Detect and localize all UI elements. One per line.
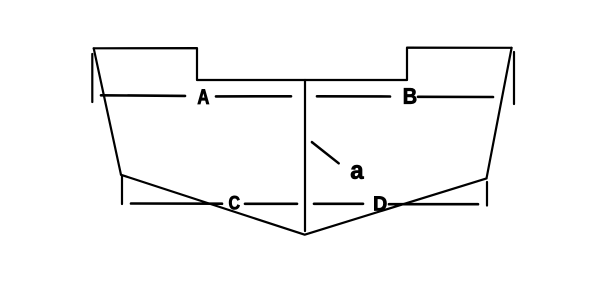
measurement line A right segment xyxy=(216,95,291,98)
right chine tick xyxy=(486,182,488,206)
measurement line A left segment xyxy=(101,94,185,97)
left extension tick xyxy=(91,54,93,102)
hull left side xyxy=(94,48,121,175)
label a xyxy=(351,165,364,179)
measurement line B left segment xyxy=(317,95,390,98)
hull bottom V xyxy=(121,175,487,235)
measurement line B right segment xyxy=(418,96,493,99)
label D xyxy=(374,196,386,210)
leader line a xyxy=(312,142,339,163)
hull right side xyxy=(487,48,512,179)
label C xyxy=(229,196,239,210)
left chine tick xyxy=(121,176,123,204)
measurement line D right segment xyxy=(389,203,478,206)
right extension tick xyxy=(513,52,515,104)
label B xyxy=(404,88,416,103)
centerline vertical xyxy=(304,80,306,231)
label A xyxy=(198,89,209,104)
measurement line D left segment xyxy=(314,203,363,206)
measurement line C left segment xyxy=(131,202,222,205)
transom top outline xyxy=(94,48,512,80)
measurement line C right segment xyxy=(245,203,297,206)
